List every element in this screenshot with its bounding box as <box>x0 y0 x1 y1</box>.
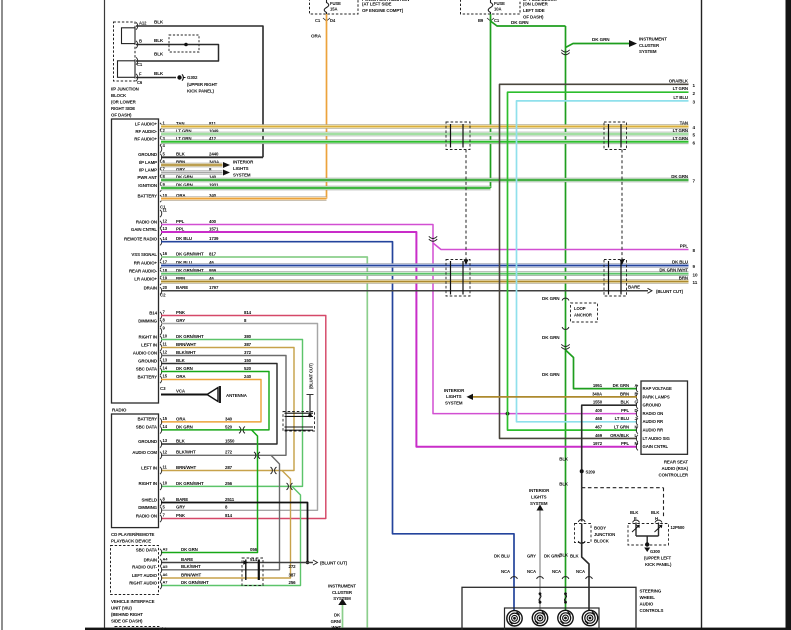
svg-text:GROUND: GROUND <box>643 403 662 408</box>
svg-text:OF DASH): OF DASH) <box>111 113 132 118</box>
svg-text:C6: C6 <box>137 80 143 85</box>
label blunt cut VIU drain <box>320 561 348 566</box>
svg-text:BLK: BLK <box>176 438 186 443</box>
svg-text:BARE: BARE <box>176 497 188 502</box>
svg-text:15: 15 <box>163 374 168 379</box>
svg-text:DIMMING: DIMMING <box>138 318 157 323</box>
dashed link upper-right to lower-right <box>621 150 623 261</box>
svg-text:DK GRN/WHT: DK GRN/WHT <box>176 481 204 486</box>
inline connector lower left dashed box <box>446 260 470 297</box>
wire BARE shield to drain <box>161 503 309 565</box>
svg-text:12: 12 <box>163 350 168 355</box>
svg-text:150: 150 <box>244 358 252 363</box>
wire DK GRN branch to x566 <box>491 21 566 26</box>
svg-text:AUDIO RR: AUDIO RR <box>643 428 664 433</box>
svg-text:SBC DATA: SBC DATA <box>136 425 158 430</box>
svg-text:(BLUNT CUT): (BLUNT CUT) <box>656 289 684 294</box>
12P500 internal arrows <box>632 525 662 532</box>
label BLK H <box>651 510 659 521</box>
svg-text:BLK/WHT: BLK/WHT <box>181 564 201 569</box>
svg-text:RIGHT IN: RIGHT IN <box>139 481 157 486</box>
frame right inner vertical line <box>701 0 703 630</box>
svg-text:GRY: GRY <box>176 505 185 510</box>
svg-text:C3: C3 <box>160 386 166 391</box>
label RADIO <box>112 408 127 413</box>
svg-text:NCA: NCA <box>527 569 536 574</box>
RSA pin rows labels/brackets <box>592 383 672 450</box>
svg-text:AUDIO (RSA): AUDIO (RSA) <box>662 466 689 471</box>
body junction exit arc <box>578 541 585 543</box>
svg-text:PNK: PNK <box>176 310 186 315</box>
svg-text:2511: 2511 <box>225 497 235 502</box>
arrow interior lights BRN <box>223 162 230 168</box>
wire DK GRN/WHT 959 REAR AUDIO- <box>161 272 689 276</box>
svg-text:PPL: PPL <box>621 408 630 413</box>
svg-text:KICK PANEL): KICK PANEL) <box>187 89 215 94</box>
svg-text:400: 400 <box>595 408 603 413</box>
svg-text:467: 467 <box>595 425 603 430</box>
wire BLK from A12 <box>136 26 263 157</box>
svg-text:BLK: BLK <box>154 52 164 57</box>
svg-text:RAP VOLTAGE: RAP VOLTAGE <box>643 386 672 391</box>
label blunt cut right <box>656 289 684 294</box>
svg-text:RF AUDIO+: RF AUDIO+ <box>134 137 157 142</box>
label G300 <box>650 549 661 554</box>
dashed splice link horizontal <box>582 487 664 489</box>
label BARE right <box>628 284 640 289</box>
wire PPL 400 down to RSA pin D <box>433 243 637 414</box>
svg-text:ORA: ORA <box>176 416 186 421</box>
svg-text:387: 387 <box>289 572 297 577</box>
radio C1 pin rows 11-14 labels/brackets <box>124 208 219 246</box>
svg-text:CONTROLLER: CONTROLLER <box>659 473 689 478</box>
svg-text:BRN/WHT: BRN/WHT <box>176 342 196 347</box>
svg-text:817: 817 <box>209 251 217 256</box>
fuse1 connector tick <box>323 18 330 21</box>
svg-text:C1: C1 <box>494 18 500 23</box>
svg-text:KICK PANEL): KICK PANEL) <box>645 562 672 567</box>
wire BLK 2440 GROUND <box>161 156 263 158</box>
steering wheel controls outer box <box>462 587 636 630</box>
svg-text:272: 272 <box>289 564 297 569</box>
CD player box <box>112 414 159 528</box>
fuse2 connector tick <box>487 18 494 21</box>
label G300 location <box>644 556 672 568</box>
svg-text:240: 240 <box>244 374 252 379</box>
wire LT GRN 1049 RF AUDIO- <box>161 132 689 136</box>
svg-text:ORA/BLK: ORA/BLK <box>669 78 689 83</box>
junction block bus bar 2 <box>118 61 136 78</box>
svg-text:DRAIN: DRAIN <box>144 557 157 562</box>
splice on SBC DATA <box>239 427 245 434</box>
svg-text:PNK: PNK <box>176 513 186 518</box>
svg-text:LEFT SIDE: LEFT SIDE <box>523 8 545 13</box>
label BLK lower <box>559 482 569 487</box>
svg-text:(BEHIND RIGHT: (BEHIND RIGHT <box>111 612 143 617</box>
svg-text:NCA: NCA <box>576 569 585 574</box>
svg-text:1972: 1972 <box>593 441 603 446</box>
svg-text:RIGHT AUDIO: RIGHT AUDIO <box>129 580 157 585</box>
svg-text:LR AUDIO+: LR AUDIO+ <box>134 276 157 281</box>
break symbol wire2 <box>539 592 542 603</box>
svg-text:DK GRN: DK GRN <box>671 174 688 179</box>
label C1 <box>160 205 166 210</box>
svg-text:I/P JUNCTION: I/P JUNCTION <box>111 87 139 92</box>
frame right black bar <box>786 0 791 630</box>
pin label B <box>139 39 142 44</box>
label instrument cluster system bottom <box>328 584 356 602</box>
svg-text:BODY: BODY <box>594 526 606 531</box>
svg-text:BATTERY: BATTERY <box>137 193 157 198</box>
svg-text:BATTERY: BATTERY <box>137 374 157 379</box>
NCA arc wire1 <box>511 577 518 579</box>
junction block pin bracket A12 <box>136 22 138 29</box>
antenna lead wire <box>161 394 207 396</box>
label ORA <box>311 34 322 39</box>
svg-text:056: 056 <box>250 547 258 552</box>
label ANTENNA <box>226 393 248 398</box>
label S209 <box>586 469 596 474</box>
label instrument cluster system top <box>639 37 667 55</box>
svg-text:514: 514 <box>250 557 258 562</box>
wire LT GRN corner <box>508 92 689 430</box>
svg-text:I/P LAMP: I/P LAMP <box>139 167 157 172</box>
label VCA antenna <box>176 389 186 394</box>
svg-text:AUDIO: AUDIO <box>640 602 654 607</box>
steering control knob 2 <box>532 610 547 625</box>
svg-text:IGNITION: IGNITION <box>138 183 157 188</box>
label DK GRN WHT bottom <box>331 613 342 630</box>
antenna symbol <box>207 386 220 403</box>
label DK GRN cluster <box>592 37 610 42</box>
svg-text:REAR SEAT: REAR SEAT <box>664 460 689 465</box>
svg-text:RADIO ON: RADIO ON <box>643 411 664 416</box>
label GRY steering <box>527 554 536 559</box>
wire BLK from F to G302 <box>136 77 176 79</box>
svg-text:340: 340 <box>225 416 233 421</box>
wire DK BLU 1739 REMOTE RADIO <box>161 242 514 612</box>
wire DK GRN to instrument cluster <box>566 44 630 48</box>
svg-text:RADIO OUT-: RADIO OUT- <box>132 565 157 570</box>
wire DK GRN 140 PWR ANT <box>161 178 689 182</box>
label G302 <box>187 75 198 80</box>
svg-text:340A: 340A <box>592 391 602 396</box>
svg-text:13: 13 <box>163 226 168 231</box>
svg-text:DIMMING: DIMMING <box>138 505 157 510</box>
svg-text:PPL: PPL <box>680 244 689 249</box>
wire TAN 811 LF AUDIO+ <box>161 125 689 129</box>
svg-text:1550: 1550 <box>225 438 235 443</box>
steering control knob 1 <box>507 611 522 626</box>
pin label C1 <box>137 62 143 67</box>
dashed link upper-left to lower-left <box>465 150 467 261</box>
svg-text:FUSE: FUSE <box>330 1 341 6</box>
svg-text:C: C <box>635 400 638 405</box>
svg-text:K: K <box>635 425 638 430</box>
interior lights system arrow bottom <box>537 505 544 511</box>
label FUSE 10A <box>494 1 505 12</box>
VIU pin rows labels/brackets <box>129 547 296 589</box>
svg-text:AUDIO RR: AUDIO RR <box>643 419 664 424</box>
label DK BLU steering <box>494 554 510 559</box>
svg-text:PPL: PPL <box>176 226 185 231</box>
svg-text:C2: C2 <box>160 293 166 298</box>
svg-text:BLK: BLK <box>176 358 186 363</box>
ground G302 symbol <box>177 74 185 80</box>
svg-text:10: 10 <box>693 272 698 277</box>
splice on RIGHT IN <box>287 483 293 490</box>
svg-text:BLOCK: BLOCK <box>111 93 127 98</box>
junction block pin bracket C1 <box>136 57 138 64</box>
fuse F1 symbol <box>324 0 329 14</box>
label NCA 4 <box>576 569 585 574</box>
svg-text:15A: 15A <box>330 7 337 12</box>
wire DK GRN ignition vertical <box>490 14 492 188</box>
svg-text:(ON LOWER: (ON LOWER <box>523 2 549 7</box>
inline connector upper left bars <box>451 124 464 148</box>
wire ORA/BLK corner <box>500 84 689 438</box>
inline connector lower left bars <box>451 261 464 295</box>
svg-text:BLK: BLK <box>630 510 638 515</box>
label C1 D4 <box>315 18 336 23</box>
svg-text:LT GRN: LT GRN <box>673 136 688 141</box>
svg-text:RIGHT SIDE: RIGHT SIDE <box>111 106 135 111</box>
label BLK C1 wire <box>154 52 164 57</box>
label interior lights system mid <box>444 388 465 406</box>
svg-text:SHIELD: SHIELD <box>141 497 157 502</box>
svg-text:A5: A5 <box>163 564 169 569</box>
svg-text:PPL: PPL <box>176 219 185 224</box>
svg-text:INSTRUMENT: INSTRUMENT <box>639 37 667 42</box>
loop anchor arcs <box>562 298 569 329</box>
svg-text:SYSTEM: SYSTEM <box>333 596 351 601</box>
svg-text:BLK: BLK <box>559 457 569 462</box>
fuse F2 symbol <box>488 0 493 14</box>
NCA arc wire4 <box>586 577 593 579</box>
bottom cut bracket <box>162 626 167 630</box>
svg-text:B: B <box>139 39 142 44</box>
svg-text:NCA: NCA <box>552 569 561 574</box>
svg-text:ORA: ORA <box>176 374 186 379</box>
svg-text:400: 400 <box>209 219 217 224</box>
12P500 dashed box <box>628 524 669 546</box>
svg-text:SYSTEM: SYSTEM <box>233 173 251 178</box>
svg-text:STEERING: STEERING <box>640 589 662 594</box>
svg-text:GRN/: GRN/ <box>331 619 342 624</box>
svg-text:REAR AUDIO-: REAR AUDIO- <box>129 269 158 274</box>
I/P junction block dashed box <box>114 22 136 81</box>
svg-text:CLUSTER: CLUSTER <box>639 43 660 48</box>
svg-text:BLK/WHT: BLK/WHT <box>176 450 196 455</box>
inline connector C2 verticals bracket bars <box>285 413 314 430</box>
svg-text:520: 520 <box>225 424 233 429</box>
pin label C6 <box>137 80 143 85</box>
svg-text:A12: A12 <box>139 21 147 26</box>
wire BRN 343A I/P LAMP <box>161 163 223 167</box>
wire BARE 514 drain row <box>161 562 313 564</box>
inline connector VIU rows dashed box <box>242 558 263 586</box>
arrow to instrument cluster bottom <box>338 599 346 606</box>
svg-text:BRN: BRN <box>679 276 688 281</box>
inline connector upper left dashed box <box>446 122 470 150</box>
svg-text:SYSTEM: SYSTEM <box>530 501 548 506</box>
svg-text:DK GRN: DK GRN <box>613 383 629 388</box>
svg-text:VCA: VCA <box>176 389 186 394</box>
svg-text:11: 11 <box>693 280 698 285</box>
svg-text:CLUSTER: CLUSTER <box>332 590 353 595</box>
radio box <box>112 119 159 403</box>
svg-text:A3: A3 <box>163 547 169 552</box>
svg-text:A: A <box>635 383 638 388</box>
svg-text:LIGHTS: LIGHTS <box>233 166 249 171</box>
svg-text:JUNCTION: JUNCTION <box>594 532 615 537</box>
junction dot blunt stub <box>308 414 312 418</box>
svg-text:D4: D4 <box>330 18 336 23</box>
svg-text:BLOCK: BLOCK <box>594 539 610 544</box>
label B9 C1 <box>478 18 500 23</box>
svg-text:LT GRN: LT GRN <box>673 128 688 133</box>
svg-text:INTERIOR: INTERIOR <box>529 488 550 493</box>
arrow from interior lights to park lamps <box>467 394 474 400</box>
svg-text:CD PLAYER/REMOTE: CD PLAYER/REMOTE <box>111 532 155 537</box>
svg-text:10: 10 <box>163 334 168 339</box>
svg-text:GRY: GRY <box>527 554 536 559</box>
svg-text:D: D <box>635 408 638 413</box>
break symbol wire3 <box>564 592 567 603</box>
stub E arc <box>633 520 640 536</box>
svg-text:16: 16 <box>163 251 168 256</box>
svg-text:LEFT IN: LEFT IN <box>141 342 157 347</box>
fuse block 1 dashed box <box>310 0 359 14</box>
svg-text:RADIO ON: RADIO ON <box>136 219 157 224</box>
svg-text:B9: B9 <box>478 18 484 23</box>
junction block pin bracket B <box>136 41 138 48</box>
radio C1 pin rows 1-10 labels/brackets <box>134 121 220 203</box>
squiggle on DK GRN at y346 <box>561 344 569 349</box>
label I/P junction block <box>111 87 139 118</box>
svg-text:BLK: BLK <box>651 510 659 515</box>
CD player pin rows labels/brackets <box>132 416 235 522</box>
svg-text:LT AUDIO SIG: LT AUDIO SIG <box>643 436 671 441</box>
label blunt cut vertical <box>309 363 314 389</box>
svg-text:G302: G302 <box>187 75 198 80</box>
svg-text:(BLUNT CUT): (BLUNT CUT) <box>320 561 348 566</box>
svg-text:DK GRN: DK GRN <box>592 37 610 42</box>
svg-text:LT GRN: LT GRN <box>614 425 629 430</box>
svg-text:PARK LAMPS: PARK LAMPS <box>643 394 670 399</box>
steering wheel controls inner box <box>505 608 600 630</box>
label NCA 2 <box>527 569 536 574</box>
svg-text:(AT LEFT SIDE: (AT LEFT SIDE <box>362 2 392 7</box>
arrowhead on DK BLU at x466 <box>464 260 469 266</box>
svg-text:BLK: BLK <box>620 400 630 405</box>
label BLK upper <box>559 457 569 462</box>
frame left outer vertical line <box>1 0 3 630</box>
svg-text:14: 14 <box>163 366 168 371</box>
svg-text:BLK: BLK <box>559 553 569 558</box>
svg-text:272: 272 <box>225 450 233 455</box>
svg-text:(UPPER LEFT: (UPPER LEFT <box>644 556 672 561</box>
svg-text:G300: G300 <box>650 549 661 554</box>
inline connector lower right dashed box <box>604 260 627 297</box>
label BLK at body junction exit <box>559 553 569 558</box>
wire DK GRN/WHT cluster bottom <box>342 605 344 628</box>
squiggle on PPL at bend <box>429 236 437 241</box>
wire DK GRN 1931 IGNITION <box>161 186 491 190</box>
svg-text:RADIO ON: RADIO ON <box>136 513 157 518</box>
label FUSE 15A <box>330 1 341 12</box>
svg-text:BLK: BLK <box>570 554 580 559</box>
svg-text:BLK: BLK <box>154 38 164 43</box>
svg-text:814: 814 <box>244 310 252 315</box>
svg-text:S209: S209 <box>586 469 596 474</box>
radio C1 pin rows 16-20 labels/brackets <box>129 251 219 294</box>
svg-text:RR AUDIO+: RR AUDIO+ <box>134 260 158 265</box>
fuse block 2 dashed box <box>461 0 521 14</box>
svg-text:LT BLU: LT BLU <box>673 95 688 100</box>
svg-text:DK: DK <box>334 613 341 618</box>
svg-text:(BLUNT CUT): (BLUNT CUT) <box>309 363 314 389</box>
splice on LEFT IN <box>271 467 277 474</box>
label DK GRN near fuse2 <box>511 20 529 25</box>
svg-text:NCA: NCA <box>501 569 510 574</box>
svg-text:814: 814 <box>225 513 233 518</box>
blunt cut arrow on BARE drain <box>648 288 653 293</box>
svg-text:ANCHOR: ANCHOR <box>574 313 592 318</box>
wire PPL 1571 GAIN CNTRL <box>161 232 637 447</box>
junction block pin bracket F <box>136 74 138 81</box>
svg-text:SBC DATA: SBC DATA <box>136 547 158 552</box>
svg-text:SBC DATA: SBC DATA <box>136 366 158 371</box>
label fuse1 location <box>362 2 404 14</box>
svg-text:BRN/WHT: BRN/WHT <box>181 572 201 577</box>
label DK GRN to pin A <box>542 372 560 377</box>
wire LT BLU corner <box>517 101 689 422</box>
label DK GRN below loop anchor <box>542 335 560 340</box>
svg-text:DK GRN/WHT: DK GRN/WHT <box>176 251 204 256</box>
svg-text:10A: 10A <box>494 7 501 12</box>
svg-text:OF DASH): OF DASH) <box>523 15 544 20</box>
svg-text:256: 256 <box>225 481 233 486</box>
svg-text:DK GRN: DK GRN <box>176 366 193 371</box>
label CD player <box>111 532 155 544</box>
label BLK B wire <box>154 38 164 43</box>
svg-text:DK GRN/WHT: DK GRN/WHT <box>176 334 204 339</box>
label C3 <box>160 386 166 391</box>
svg-text:LEFT AUDIO: LEFT AUDIO <box>132 573 158 578</box>
svg-text:(UPPER RIGHT: (UPPER RIGHT <box>187 82 218 87</box>
svg-text:A7: A7 <box>163 580 169 585</box>
wire GRY 8 I/P LAMP <box>161 171 223 175</box>
svg-text:LEFT IN: LEFT IN <box>141 465 157 470</box>
steering control knob 4 <box>582 610 597 625</box>
svg-text:CONTROLS: CONTROLS <box>640 608 664 613</box>
wire DK GRN main vertical x565 <box>565 26 567 612</box>
label C2 <box>160 293 166 298</box>
svg-text:BARE: BARE <box>628 284 640 289</box>
svg-text:1739: 1739 <box>209 236 219 241</box>
svg-text:12: 12 <box>163 219 168 224</box>
svg-text:LOOP: LOOP <box>574 306 586 311</box>
body junction block dashed box <box>575 524 592 543</box>
svg-text:GAIN CNTRL: GAIN CNTRL <box>131 227 157 232</box>
svg-text:DK GRN: DK GRN <box>181 547 198 552</box>
svg-text:ORA: ORA <box>311 34 322 39</box>
wire DK BLU 46 RR AUDIO+ <box>161 264 689 268</box>
svg-text:INTERIOR: INTERIOR <box>233 160 254 165</box>
label fuse2 location <box>523 2 549 20</box>
svg-text:SIDE OF DASH): SIDE OF DASH) <box>111 619 143 624</box>
